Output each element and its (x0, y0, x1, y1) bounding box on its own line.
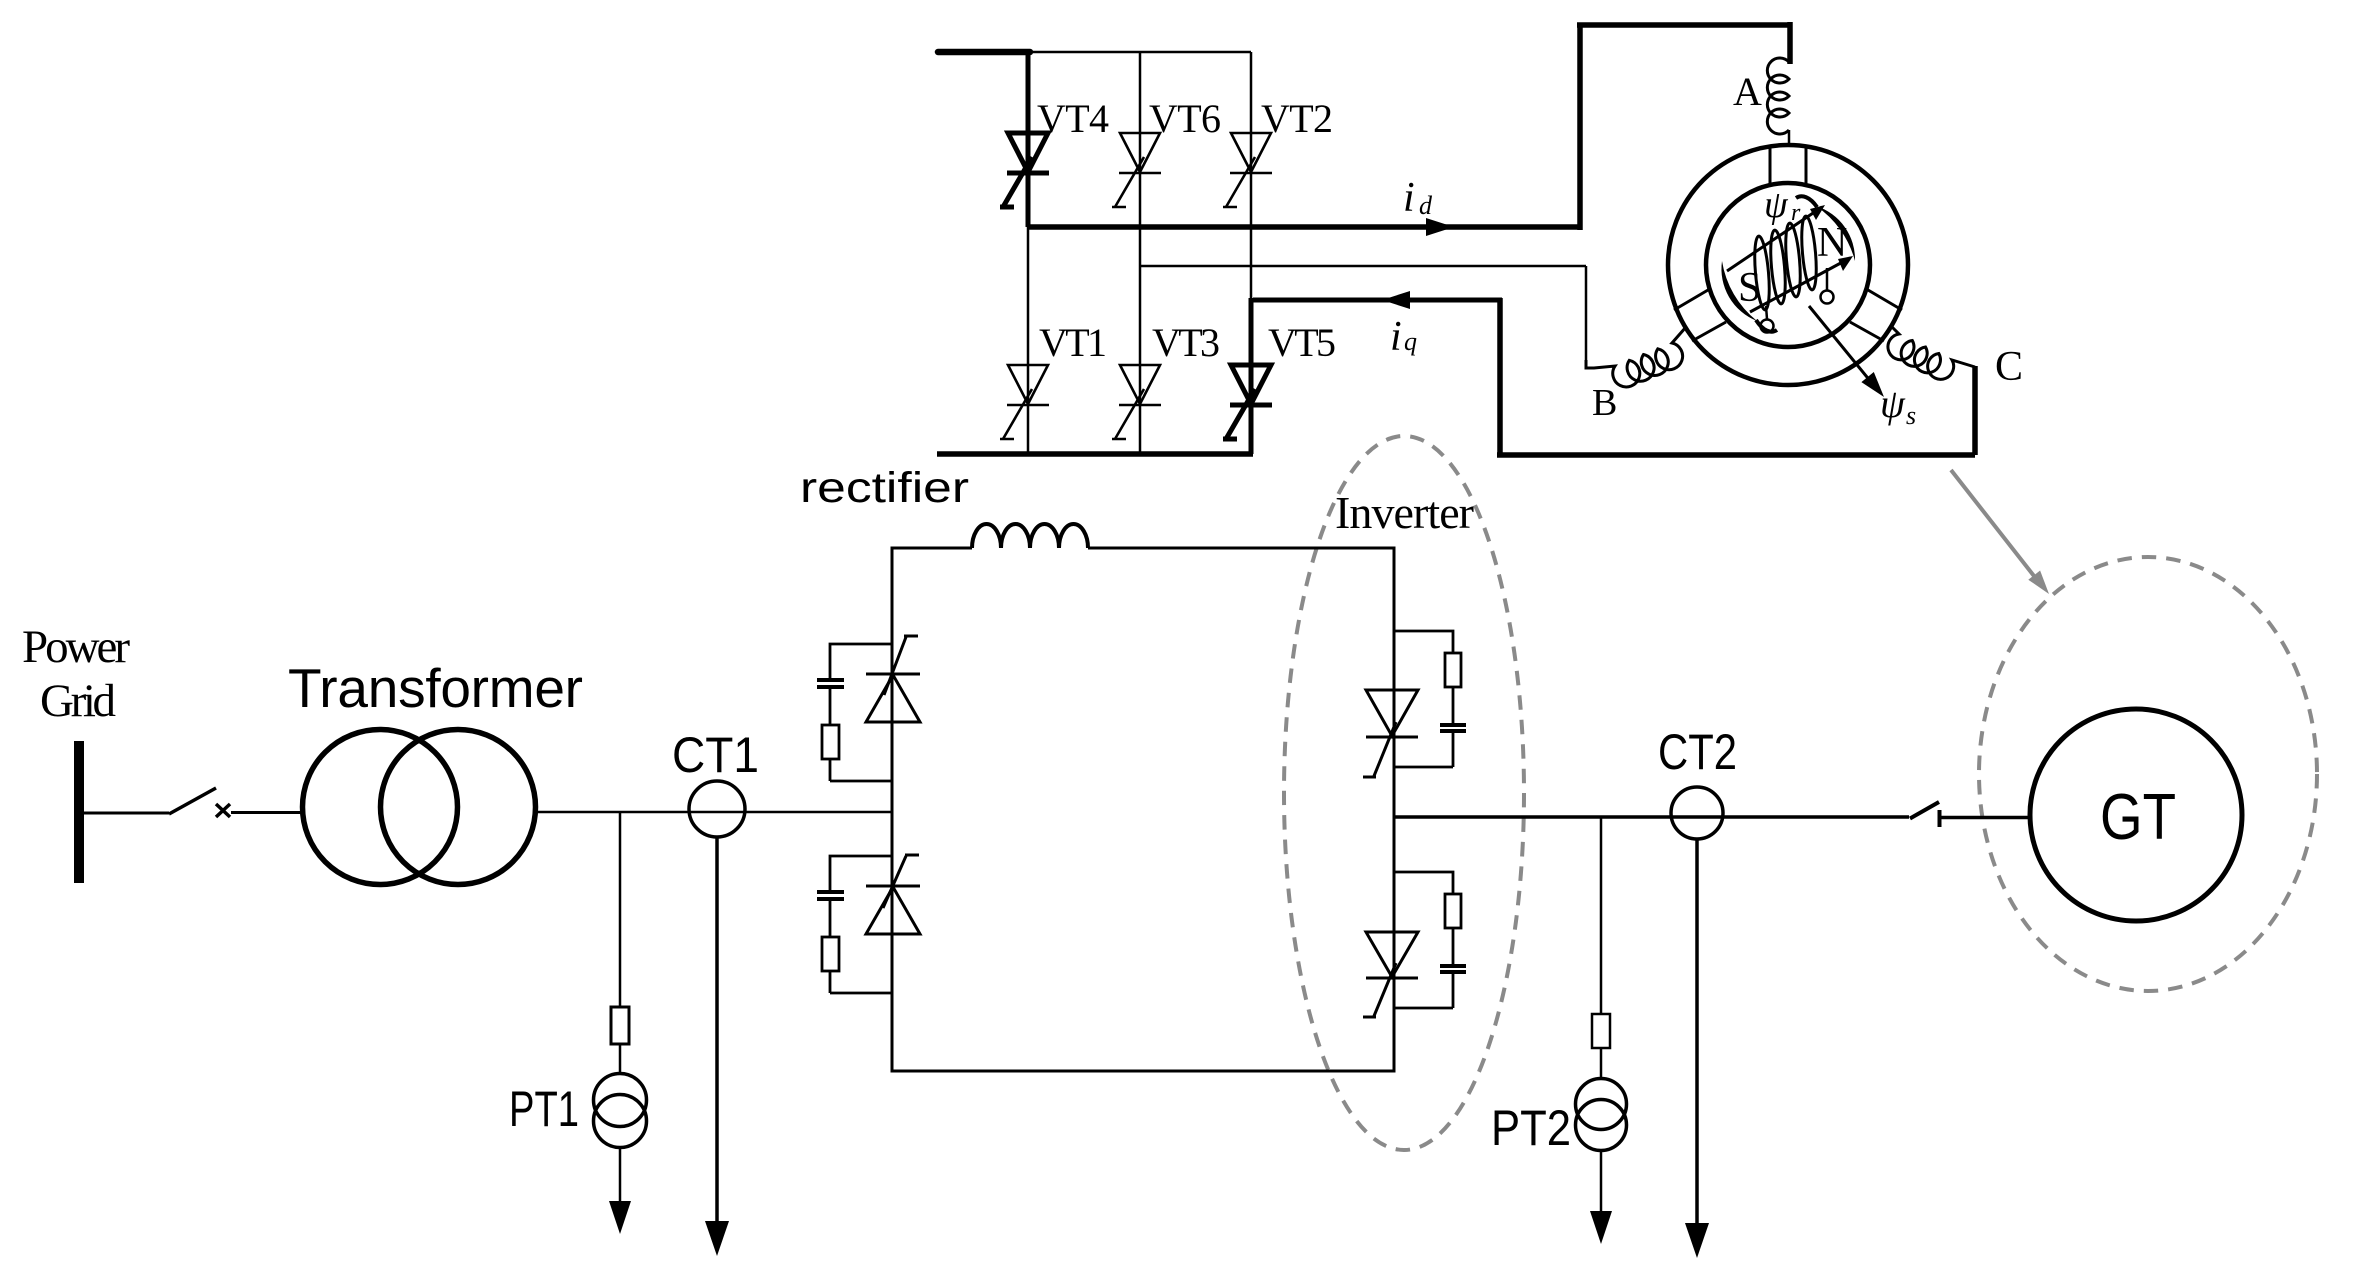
inductor B winding (1586, 327, 1686, 387)
thyristor box right upper (1363, 690, 1418, 777)
wire A stub (1788, 130, 1791, 147)
arrow id (1426, 218, 1454, 236)
fuse PT1 (611, 1007, 629, 1044)
wire box to switch right (1394, 815, 1909, 819)
wire CT2 drop (1695, 839, 1699, 1224)
svg-text:VT6: VT6 (1149, 96, 1221, 141)
wire stator return path (1497, 298, 1975, 455)
fuse PT2 (1592, 1014, 1610, 1048)
motor stator outer circle (1668, 145, 1908, 385)
rotor S pole shoe (1721, 261, 1757, 321)
wire fuse to PT2 (1600, 1048, 1603, 1078)
switch QS1 blade (169, 788, 216, 814)
snubber box right lower (1394, 872, 1466, 1008)
CT1 circle (689, 781, 745, 837)
svg-text:ψ: ψ (1880, 381, 1906, 426)
thyristor VT2 (1223, 133, 1272, 207)
wire PT1 branch (619, 812, 622, 1007)
svg-text:CT1: CT1 (672, 727, 759, 783)
rotor terminal 2 (1826, 268, 1829, 290)
rotor coil loops (1752, 216, 1818, 311)
svg-text:VT3: VT3 (1152, 320, 1220, 365)
thyristor VT3 (1112, 365, 1161, 439)
terminal block C (1850, 290, 1902, 341)
inductor C winding (1888, 326, 1975, 379)
CT2 circle (1671, 787, 1723, 839)
transformer T1 (303, 730, 458, 885)
snubber box right upper (1394, 631, 1466, 767)
wire fuse to PT1 (619, 1044, 622, 1074)
switch QS1 x mark (216, 804, 230, 817)
wire switch to transformer (231, 811, 304, 814)
switch QS2 blade (1910, 802, 1939, 819)
thyristor VT4 (1000, 133, 1049, 207)
svg-text:s: s (1906, 401, 1916, 430)
converter box with inductor on top (892, 548, 1394, 1071)
thyristor VT1 (1000, 365, 1049, 439)
svg-text:GT: GT (2100, 780, 2176, 853)
wire top rail thick stub (938, 49, 1030, 56)
rotor axis line lower with arrow (1750, 258, 1850, 312)
wire middle rail to B (1140, 266, 1586, 362)
svg-text:Grid: Grid (40, 675, 116, 727)
thyristor VT5 (1223, 365, 1272, 439)
wire transformer to box (536, 811, 893, 814)
svg-text:VT5: VT5 (1268, 320, 1336, 365)
thyristor box left lower (866, 855, 920, 934)
wire iq (1253, 298, 1502, 303)
svg-text:r: r (1791, 200, 1801, 226)
terminal block B (1674, 290, 1726, 341)
bus bar (74, 741, 84, 883)
thyristor box right lower (1363, 932, 1418, 1017)
svg-text:PT2: PT2 (1491, 1100, 1571, 1156)
svg-text:B: B (1592, 382, 1617, 424)
svg-text:S: S (1738, 265, 1761, 311)
rotor N pole shoe (1816, 206, 1855, 261)
svg-text:i: i (1390, 314, 1402, 360)
svg-text:rectifier: rectifier (800, 464, 969, 512)
arrow PT1 ground (609, 1201, 631, 1234)
wire VT1 column (1027, 227, 1030, 454)
svg-text:VT1: VT1 (1039, 320, 1107, 365)
svg-text:Inverter: Inverter (1335, 487, 1474, 538)
thyristor box left upper (866, 636, 920, 722)
svg-text:C: C (1995, 344, 2023, 390)
wire bottom rail (937, 451, 1253, 457)
wire switch to GT (1941, 816, 2031, 820)
wire id path (1028, 22, 1790, 230)
wire PT1 tail (619, 1148, 622, 1202)
thyristor VT6 (1112, 133, 1161, 207)
inductor A winding (1767, 58, 1789, 134)
PT1 circles (594, 1074, 647, 1127)
wire top rail thin (1028, 51, 1251, 54)
rotor axis line upper with arrow (1727, 207, 1822, 271)
rotor terminal 1 (1766, 306, 1767, 319)
svg-text:q: q (1404, 327, 1417, 356)
dashed ellipse GT unit (1979, 557, 2317, 991)
svg-text:VT4: VT4 (1037, 96, 1109, 141)
terminal block A (1770, 146, 1806, 185)
svg-text:A: A (1733, 69, 1762, 114)
wire VT5 column (1249, 298, 1254, 454)
arrow CT1 ground (705, 1221, 729, 1256)
svg-text:VT2: VT2 (1261, 96, 1333, 141)
svg-text:Transformer: Transformer (288, 657, 583, 719)
svg-text:i: i (1403, 175, 1415, 221)
wire VT4 column (1026, 49, 1031, 227)
svg-text:N: N (1817, 220, 1847, 266)
generator GT circle (2030, 709, 2242, 921)
PT2 circles (1576, 1079, 1627, 1130)
wire PT2 tail (1600, 1151, 1603, 1212)
switch QS2 tick (1938, 810, 1942, 827)
arrow PT2 ground (1590, 1211, 1612, 1244)
arrow iq (1382, 291, 1410, 309)
arrow psi s (1809, 306, 1871, 382)
svg-text:Power: Power (22, 621, 130, 673)
snubber box left upper (817, 644, 893, 781)
wire VT2 column (1250, 52, 1253, 300)
motor stator inner circle (1706, 183, 1870, 347)
svg-text:d: d (1419, 191, 1433, 220)
snubber box left lower (817, 856, 893, 993)
inductor L smoothing reactor (972, 524, 1088, 548)
svg-text:ψ: ψ (1764, 184, 1789, 226)
svg-text:CT2: CT2 (1658, 724, 1737, 780)
dashed ellipse inverter (1284, 436, 1524, 1150)
wire grid to switch (84, 812, 169, 815)
wire CT1 drop (715, 837, 719, 1222)
arrow CT2 ground (1685, 1223, 1709, 1258)
svg-text:PT1: PT1 (509, 1081, 579, 1137)
wire PT2 branch (1600, 817, 1603, 1014)
wire VT6 VT3 column (1139, 52, 1142, 454)
gray arrow to GT (1951, 470, 2034, 576)
